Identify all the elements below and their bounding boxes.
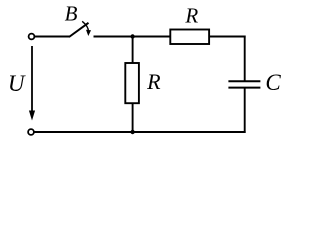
svg-text:C: C	[265, 70, 281, 95]
resistor R (top, horizontal)	[170, 30, 209, 45]
switch B	[69, 21, 91, 37]
resistor R (middle, vertical)	[125, 63, 139, 103]
junction node bottom	[130, 130, 134, 134]
wire middle branch upper	[132, 37, 134, 64]
wire switch-to-junction	[94, 36, 171, 38]
wire top-left segment	[34, 36, 69, 38]
terminal bottom-left	[28, 129, 34, 135]
wire resistor-to-corner	[209, 36, 246, 38]
voltage arrow U	[29, 46, 35, 121]
junction node top	[130, 34, 134, 38]
wire right edge upper	[244, 36, 246, 81]
wire middle branch lower	[132, 103, 134, 132]
wire bottom	[34, 131, 246, 133]
svg-text:R: R	[184, 3, 198, 27]
capacitor C	[228, 81, 260, 87]
svg-text:U: U	[8, 71, 26, 96]
terminal top-left	[29, 34, 35, 40]
wire right edge lower	[244, 89, 246, 134]
svg-text:R: R	[146, 69, 161, 94]
svg-text:B: B	[65, 1, 78, 25]
